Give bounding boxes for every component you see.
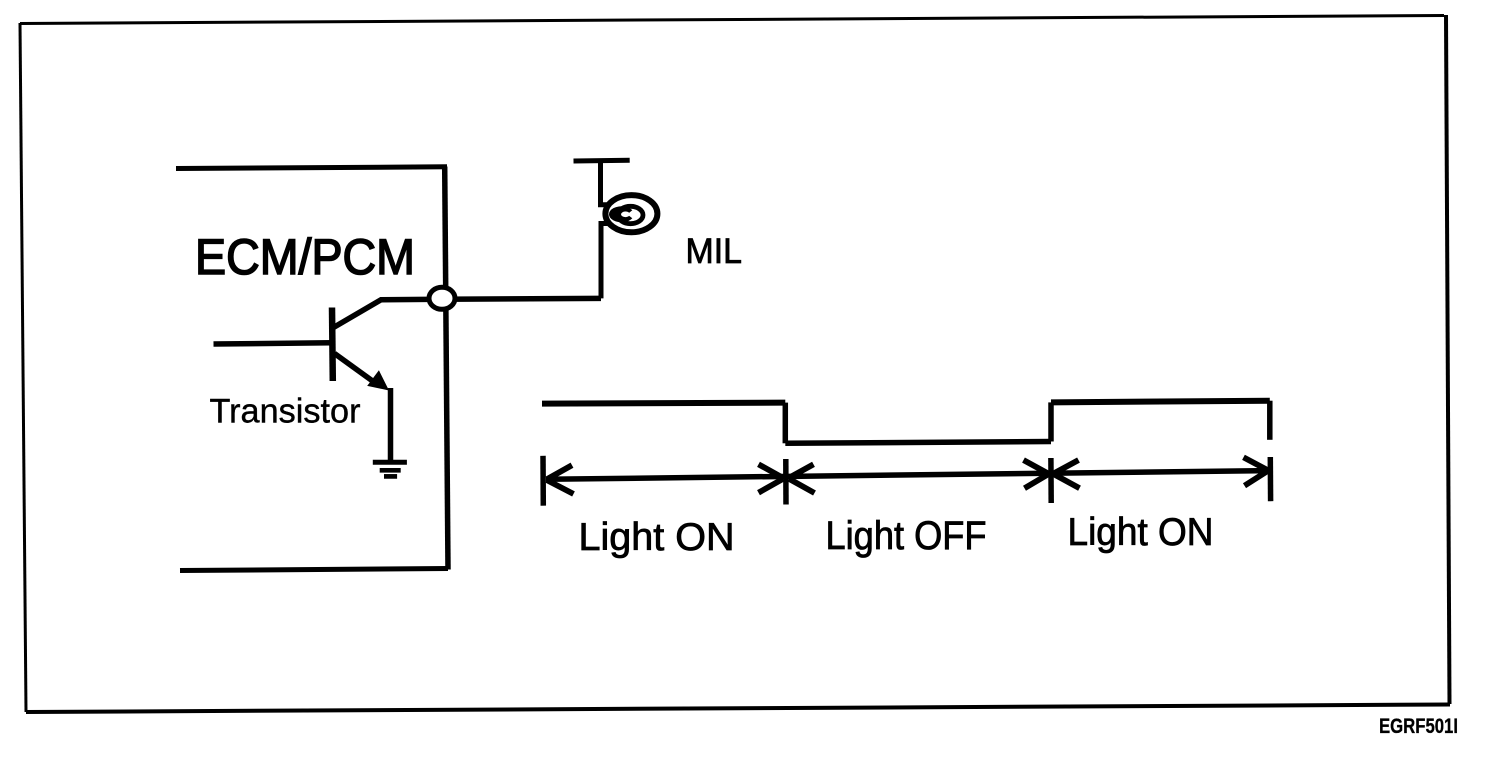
waveform falling edge: [783, 403, 789, 444]
svg-text:EGRF501I: EGRF501I: [1379, 715, 1458, 738]
arrowhead right-pointing at tick 4: [1244, 457, 1268, 485]
wire lamp vertical lower: [601, 224, 608, 299]
svg-text:Light OFF: Light OFF: [826, 514, 987, 558]
transistor Q1 bar: [329, 308, 336, 382]
ECM/PCM box bottom wire: [180, 569, 448, 571]
svg-text:ECM/PCM: ECM/PCM: [195, 228, 415, 285]
ECM/PCM box right vertical wire: [445, 167, 448, 570]
svg-text:Light ON: Light ON: [579, 516, 735, 559]
wire lamp vertical upper: [601, 162, 608, 205]
lamp filament coil blob: [609, 206, 632, 222]
waveform rising edge: [1048, 402, 1054, 441]
arrowhead left at tick 1: [547, 465, 574, 494]
transistor emitter arrowhead: [367, 370, 389, 390]
power T-bar: [574, 158, 630, 164]
dimension arrow shaft: [546, 471, 1268, 480]
waveform right end drop: [1267, 401, 1273, 440]
waveform low segment: [785, 442, 1051, 444]
dimension tick 1: [540, 456, 546, 506]
arrowhead right-pointing at tick 3: [1024, 460, 1049, 488]
lamp filament inner loop: [618, 206, 643, 223]
ECM/PCM box top wire: [176, 167, 447, 169]
emitter to ground wire: [388, 388, 394, 462]
lamp MIL bulb outline: [605, 195, 657, 232]
ground line 1: [373, 460, 407, 465]
dimension tick 3: [1048, 458, 1054, 503]
border frame bottom: [26, 705, 1450, 713]
ground line 3: [384, 474, 397, 479]
waveform high segment 1: [542, 403, 785, 404]
transistor collector wire: [334, 299, 443, 327]
dimension tick 4: [1268, 457, 1274, 501]
node junction circle: [429, 287, 455, 309]
border frame right: [1446, 15, 1450, 704]
border frame left: [20, 23, 26, 712]
arrowhead right-pointing at tick 2: [759, 464, 784, 492]
arrowhead left-pointing at tick 2: [789, 464, 815, 493]
transistor base wire: [214, 343, 333, 344]
wire node to lamp horizontal: [442, 296, 601, 302]
svg-text:Transistor: Transistor: [210, 393, 361, 431]
svg-text:MIL: MIL: [686, 232, 743, 271]
arrowhead left-pointing at tick 3: [1054, 460, 1080, 488]
border frame top: [20, 16, 1444, 24]
transistor emitter wire: [335, 354, 377, 384]
ground line 2: [380, 468, 401, 473]
dimension tick 2: [783, 459, 789, 505]
waveform high segment 2: [1051, 401, 1270, 403]
svg-text:Light ON: Light ON: [1068, 511, 1214, 554]
